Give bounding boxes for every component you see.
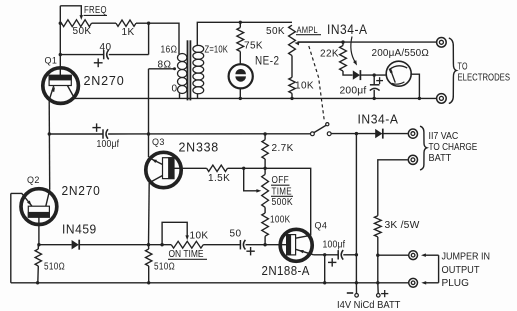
label 1K <box>122 27 135 38</box>
label 75K <box>244 41 263 52</box>
label 8ohm <box>158 59 172 70</box>
resistor R10 100K <box>262 213 269 236</box>
label 50K AMPL <box>266 26 285 37</box>
svg-text:Q2: Q2 <box>27 175 40 185</box>
label + of C4 <box>246 247 254 255</box>
svg-text:Q3: Q3 <box>152 137 165 147</box>
potentiometer R1 50K FREQ <box>62 20 92 27</box>
svg-text:2.7K: 2.7K <box>272 143 294 154</box>
label 14V NiCd BATT <box>337 300 400 311</box>
wire Q3 base to 1.5K <box>174 167 207 169</box>
wire jumper node to jack J5 <box>378 254 409 256</box>
label + of C5 <box>328 258 336 266</box>
label OFF <box>271 175 290 186</box>
capacitor C4 50 <box>240 240 245 250</box>
label 2N338 <box>179 140 220 155</box>
label Q2 <box>27 175 40 185</box>
svg-text:JUMPER IN: JUMPER IN <box>442 252 491 263</box>
resistor R12 3K/5W <box>374 216 381 237</box>
label 1.5K <box>208 173 230 184</box>
label ON TIME <box>168 249 207 260</box>
node 100K bottom <box>263 243 266 246</box>
wire FREQ bypass top <box>60 6 81 16</box>
svg-text:TO CHARGE: TO CHARGE <box>429 142 478 153</box>
transistor Q2 collector line <box>46 190 50 206</box>
neon lamp NE-2 circle <box>229 64 253 88</box>
label 510-2 <box>154 262 175 273</box>
svg-text:10K: 10K <box>295 81 314 92</box>
label 2N270 Q2 <box>62 183 101 198</box>
transformer T1 primary coil <box>178 54 187 94</box>
svg-text:II7 VAC: II7 VAC <box>429 131 459 142</box>
label + of C3 <box>92 123 100 131</box>
label 117VAC <box>429 131 459 142</box>
wire branch down to 40 cap line <box>148 23 150 54</box>
wire node-A vertical left of 50K pot <box>59 6 61 76</box>
wire Q1 emitter down to Q2 <box>48 101 51 190</box>
svg-text:IN34-A: IN34-A <box>358 112 399 127</box>
wire rail2 to 2.7K <box>264 134 266 140</box>
jack J6 jumper bottom <box>409 278 418 287</box>
node battery minus on rail <box>355 281 358 284</box>
resistor R6 22K <box>340 42 347 71</box>
transistor Q4 2N188-A circle <box>280 229 312 261</box>
node 10K bottom on rail <box>290 97 293 100</box>
transistor Q1 2N270 circle <box>43 68 79 104</box>
wiper arrow of OFF-TIME pot <box>256 189 261 193</box>
wiper arrow of ON-TIME pot <box>185 235 189 240</box>
node Q2 base junction <box>37 243 40 246</box>
svg-text:510Ω: 510Ω <box>44 262 65 273</box>
svg-text:NE-2: NE-2 <box>255 54 280 68</box>
wire pot to 50 cap <box>203 244 240 246</box>
node ON-TIME left <box>160 243 163 246</box>
wire 500K to 100K <box>264 207 266 213</box>
label 510-1 <box>44 262 65 273</box>
svg-text:100μf: 100μf <box>323 239 346 250</box>
node 75K top <box>239 21 242 24</box>
svg-text:2N338: 2N338 <box>179 140 220 155</box>
wire ON-TIME bypass loop <box>162 222 187 244</box>
capacitor C3 100uF <box>103 129 108 139</box>
wire 1.5K to OFF-TIME junction <box>228 167 244 169</box>
svg-text:50K: 50K <box>266 26 285 37</box>
label Q3 <box>152 137 165 147</box>
wire C5 to battery line <box>343 254 356 256</box>
transistor Q3 emitter line with arrow <box>151 159 163 165</box>
wire base line to IN459 <box>39 244 72 246</box>
wire Q2 emitter left vertical <box>10 193 12 282</box>
node meter drop on rail <box>418 97 421 100</box>
node 2.7K bottom <box>263 167 266 170</box>
wire diode to meter node <box>360 74 385 76</box>
node battery minus line junction <box>355 253 358 256</box>
transformer T1 secondary coil <box>193 45 204 93</box>
wire rail2 cap to switch <box>108 133 310 135</box>
diode D1 IN34-A <box>353 70 361 80</box>
wire Q2 base down <box>38 217 40 245</box>
wire 75K to NE-2 <box>239 52 241 65</box>
resistor R13 510 first <box>35 245 41 283</box>
resistor R14 510 second <box>146 245 152 283</box>
svg-text:ON TIME: ON TIME <box>169 249 204 260</box>
label 100uf <box>97 139 120 150</box>
jack J4 117VAC bottom <box>408 155 417 164</box>
wire to Q4 collector drop <box>265 168 311 235</box>
node meter/cap junction <box>373 73 376 76</box>
wire emitter drop to bottom rail <box>324 255 326 283</box>
transformer T1 core <box>188 40 191 100</box>
label plus of battery <box>381 290 388 297</box>
node C2 bottom on rail <box>373 97 376 100</box>
label 10K ON TIME <box>190 230 209 241</box>
node jumper line junction <box>376 254 379 257</box>
label TO <box>458 61 468 72</box>
svg-text:50: 50 <box>230 228 242 239</box>
label IN34-A detector <box>327 22 368 37</box>
label 500K <box>272 197 294 208</box>
meter M1 scale arc and needle <box>390 66 408 84</box>
jack J1 electrode top <box>437 38 447 48</box>
node 510-2 bottom <box>147 281 150 284</box>
wire AMPL line to 22K junction <box>341 40 344 43</box>
diode D3 IN459 <box>72 240 80 250</box>
label Z=10K <box>205 44 229 55</box>
wire switch to diode D2 <box>331 133 375 135</box>
wire 8ohm tap <box>149 68 175 70</box>
wire 100K to base line <box>264 236 266 245</box>
wire 22K to diode <box>343 71 353 75</box>
wire to 2.7K bottom node <box>244 167 265 169</box>
node charge-line junction <box>355 132 358 135</box>
svg-text:2N188-A: 2N188-A <box>262 263 310 278</box>
svg-text:16Ω: 16Ω <box>161 45 178 56</box>
jack J5 jumper top <box>409 251 418 260</box>
wire to ON-TIME pot <box>149 244 172 246</box>
resistor R8 2.7K <box>262 140 268 159</box>
transistor Q3 2N338 circle <box>146 152 181 187</box>
battery plus terminal <box>377 283 381 297</box>
potentiometer R11 10K ON TIME <box>171 241 203 248</box>
label 100K <box>270 214 291 225</box>
svg-text:200μf: 200μf <box>340 86 367 97</box>
transistor Q4 base bar <box>286 234 296 255</box>
svg-text:75K: 75K <box>244 41 263 52</box>
svg-text:TIME: TIME <box>272 186 293 197</box>
label 2N270 Q1 <box>84 73 125 88</box>
jack J3 117VAC top <box>408 129 417 138</box>
svg-text:OFF: OFF <box>272 175 290 186</box>
label FREQ <box>84 5 108 16</box>
label minus <box>347 292 353 294</box>
transistor Q2 base bar <box>28 206 50 218</box>
label 100uf C5 <box>323 239 346 250</box>
label 22K <box>320 49 339 60</box>
svg-text:100K: 100K <box>270 214 291 225</box>
label 200uA/550ohm <box>372 47 430 59</box>
jack J2 electrode bottom <box>437 94 447 104</box>
node NE-2 bottom on rail <box>239 97 242 100</box>
wire secondary top to top rail <box>197 22 292 45</box>
capacitor C5 100uF <box>338 250 343 260</box>
wire IN459 to 510 node <box>79 244 148 246</box>
node 8ohm tap at coil <box>173 67 176 70</box>
wire AMPL pot to 10K <box>291 56 293 78</box>
label 2.7K <box>272 143 294 154</box>
svg-text:1.5K: 1.5K <box>208 173 230 184</box>
svg-text:Q4: Q4 <box>315 221 328 231</box>
node rail2 8ohm-tap junction <box>147 132 150 135</box>
transistor Q2 emitter line with arrow <box>11 193 32 206</box>
wire main ground rail <box>75 97 437 99</box>
wire 40 cap right <box>109 54 149 56</box>
svg-text:10K: 10K <box>190 230 209 241</box>
svg-text:0: 0 <box>172 84 178 95</box>
svg-text:Z=10K: Z=10K <box>205 44 229 55</box>
svg-text:AMPL: AMPL <box>297 25 318 36</box>
svg-text:BATT: BATT <box>429 153 452 164</box>
transistor Q4 collector line <box>296 235 311 238</box>
diode D2 IN34-A <box>375 129 383 139</box>
svg-text:TO: TO <box>458 61 468 72</box>
switch S1 left contact <box>311 132 315 136</box>
label 50 <box>230 228 242 239</box>
resistor R7 1.5K <box>207 165 228 171</box>
svg-text:22K: 22K <box>320 49 339 60</box>
wire 2.7K to 500K <box>264 159 266 174</box>
svg-text:510Ω: 510Ω <box>154 262 175 273</box>
label TIME <box>271 186 293 197</box>
wire J4 to 3K resistor top <box>378 160 408 216</box>
svg-text:200μA/550Ω: 200μA/550Ω <box>372 47 430 59</box>
node rail2 left end <box>48 132 51 135</box>
wire meter right to rail <box>410 74 419 98</box>
switch linkage dashed line <box>309 46 325 121</box>
wire 40-cap line <box>60 54 103 56</box>
wire 0 tap to ground rail <box>179 93 181 98</box>
label NE-2 <box>255 54 280 68</box>
node 50K left on node-A <box>59 22 62 25</box>
wire Q4 emitter to C5 <box>314 254 339 256</box>
wire NE-2 to rail <box>239 88 241 99</box>
node 510-1 bottom <box>36 281 39 284</box>
wire 3K to jumper node <box>377 237 379 283</box>
resistor R5 10K <box>289 77 295 93</box>
brace for electrodes <box>449 38 457 104</box>
svg-text:IN459: IN459 <box>62 221 97 236</box>
label PLUG <box>442 278 469 289</box>
svg-text:I4V NiCd BATT: I4V NiCd BATT <box>337 300 400 311</box>
label IN459 <box>62 221 97 236</box>
wire Q3 collector down <box>148 183 151 245</box>
node emitter drop bottom <box>323 281 326 284</box>
label AMPL <box>296 25 321 36</box>
switch S1 right contact <box>327 132 331 136</box>
wire 50 cap to Q4 base <box>246 244 287 246</box>
node 2.7K top on rail2 <box>263 132 266 135</box>
svg-text:2N270: 2N270 <box>84 73 125 88</box>
brace for 117VAC <box>420 126 427 170</box>
svg-text:1K: 1K <box>122 27 135 38</box>
transistor Q2 2N270 circle <box>21 189 57 225</box>
transistor Q3 collector line <box>149 176 162 183</box>
label 200uf <box>340 86 367 97</box>
label OUTPUT <box>442 265 480 276</box>
node junction 1K/xfmr/40cap <box>147 22 150 25</box>
battery minus terminal <box>355 283 359 297</box>
label 16ohm <box>161 45 178 56</box>
label JUMPER IN <box>442 252 491 263</box>
wiper arrow of potentiometer R1 FREQ <box>80 15 84 20</box>
neon lamp NE-2 electrodes <box>235 69 246 82</box>
annotation arrow IN34-A to diode <box>351 37 357 66</box>
wire charge junction down to battery minus <box>355 134 357 283</box>
node battery plus on rail <box>376 281 379 284</box>
wire bottom rail <box>11 282 409 284</box>
svg-text:OUTPUT: OUTPUT <box>442 265 480 276</box>
svg-text:2N270: 2N270 <box>62 183 101 198</box>
potentiometer R9 500K OFF TIME <box>262 174 269 207</box>
capacitor C1 40 <box>104 50 109 60</box>
transistor Q1 collector line <box>68 86 75 99</box>
transistor Q3 base bar <box>163 157 175 179</box>
svg-text:100μf: 100μf <box>97 139 120 150</box>
resistor R2 1K <box>116 20 136 26</box>
label IN34-A charge <box>358 112 399 127</box>
svg-text:40: 40 <box>100 42 112 53</box>
label Q1 <box>45 55 58 65</box>
wire OFF-TIME wiper branch <box>244 168 258 191</box>
wire D2 to jack J3 <box>383 133 408 135</box>
wire top line to J1 <box>298 41 437 43</box>
wire 75K top stub <box>239 22 241 27</box>
label ELECTRODES <box>458 72 511 83</box>
wire 10K to rail <box>291 93 293 98</box>
label 2N188-A <box>262 263 310 278</box>
label BATT <box>429 153 452 164</box>
svg-text:50K: 50K <box>73 26 92 37</box>
wiper arrow of AMPL pot <box>294 42 343 46</box>
potentiometer R4 50K AMPL <box>289 25 296 55</box>
svg-text:3K /5W: 3K /5W <box>385 220 420 231</box>
switch S1 lever <box>314 125 326 132</box>
node 510-2 top <box>147 243 150 246</box>
svg-text:PLUG: PLUG <box>442 278 469 289</box>
label + of C2 <box>376 77 383 84</box>
capacitor C2 200uF vertical <box>370 75 380 98</box>
node OFF-TIME wiper branch <box>242 167 245 170</box>
transistor Q4 emitter line with arrow <box>296 249 314 255</box>
label 40 <box>100 42 112 53</box>
jumper annotation arrows <box>421 253 439 284</box>
svg-text:IN34-A: IN34-A <box>327 22 368 37</box>
meter M1 200uA circle <box>386 61 411 86</box>
wire 1K to junction <box>136 22 149 24</box>
wire junction to transformer 16ohm tap <box>149 23 179 54</box>
node emitter drop <box>323 253 326 256</box>
switch S1 lever tip circle <box>326 123 329 126</box>
label 50K <box>73 26 92 37</box>
wire secondary bottom <box>197 94 199 99</box>
label 10K <box>295 81 314 92</box>
transistor Q1 base bar <box>49 75 72 86</box>
resistor R3 75K <box>237 28 244 52</box>
svg-text:ELECTRODES: ELECTRODES <box>458 72 511 83</box>
svg-text:FREQ: FREQ <box>84 5 107 16</box>
wire rail2 left segment <box>49 133 103 135</box>
svg-text:Q1: Q1 <box>45 55 58 65</box>
wire 8ohm tap vertical down to rail2 and Q3 <box>148 69 150 157</box>
svg-text:500K: 500K <box>272 197 294 208</box>
node 40-line on node-A <box>59 53 62 56</box>
wire 50K to 1K <box>92 22 117 24</box>
label + of C1 <box>94 58 103 67</box>
label Q4 <box>315 221 328 231</box>
transistor Q1 emitter line with arrow <box>49 86 55 101</box>
label 0 <box>172 84 178 95</box>
label 3K/5W <box>385 220 420 231</box>
label TO CHARGE <box>429 142 478 153</box>
